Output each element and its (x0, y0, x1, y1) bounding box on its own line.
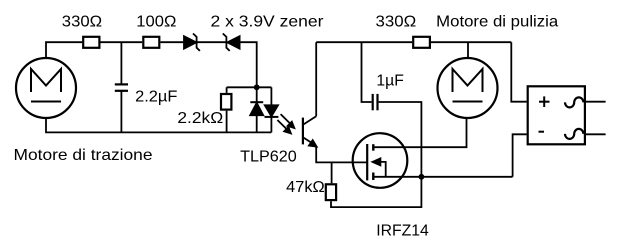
svg-text:100Ω: 100Ω (136, 14, 176, 31)
svg-text:2.2kΩ: 2.2kΩ (177, 110, 223, 127)
svg-text:Motore di pulizia: Motore di pulizia (436, 14, 558, 31)
svg-text:47kΩ: 47kΩ (286, 179, 325, 196)
svg-text:2 x 3.9V zener: 2 x 3.9V zener (211, 14, 325, 31)
svg-text:IRFZ14: IRFZ14 (376, 223, 429, 240)
svg-text:1µF: 1µF (376, 73, 404, 90)
svg-text:TLP620: TLP620 (240, 149, 297, 166)
svg-text:2.2µF: 2.2µF (135, 89, 178, 106)
svg-text:330Ω: 330Ω (62, 14, 102, 31)
svg-text:330Ω: 330Ω (376, 14, 417, 31)
svg-text:Motore di trazione: Motore di trazione (14, 147, 153, 164)
